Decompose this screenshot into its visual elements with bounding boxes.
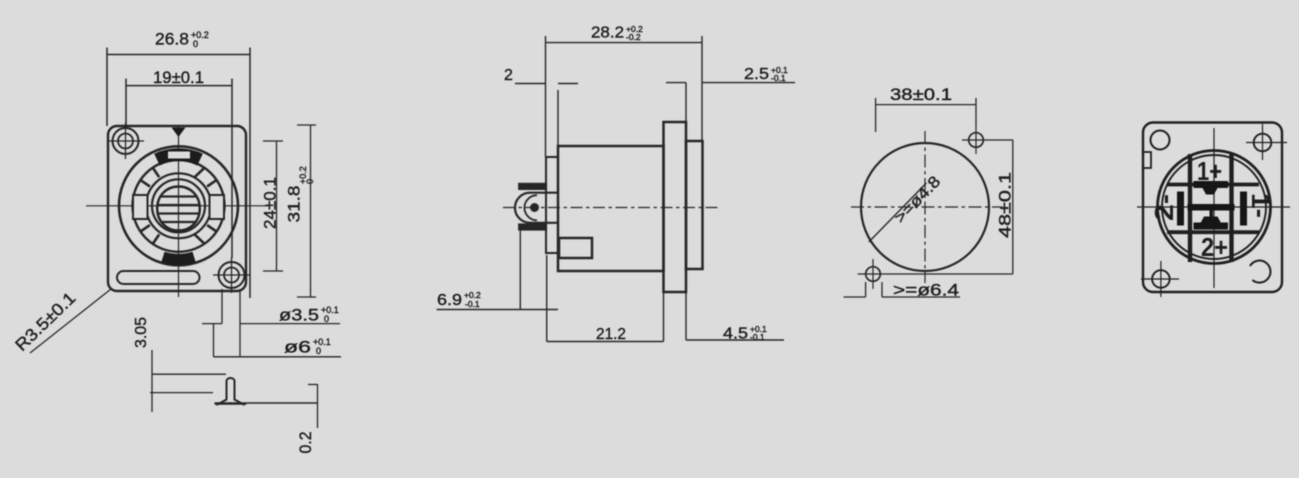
svg-text:0.2: 0.2 <box>296 432 315 454</box>
svg-text:2.5: 2.5 <box>744 66 769 83</box>
svg-text:2+: 2+ <box>1201 232 1228 262</box>
svg-text:2: 2 <box>504 67 513 84</box>
svg-text:0: 0 <box>324 314 329 324</box>
svg-text:3.05: 3.05 <box>133 317 150 348</box>
svg-text:-0.1: -0.1 <box>465 299 480 309</box>
svg-text:19±0.1: 19±0.1 <box>153 68 204 87</box>
svg-text:48±0.1: 48±0.1 <box>996 172 1015 238</box>
svg-text:38±0.1: 38±0.1 <box>890 85 952 104</box>
svg-text:>=ø6.4: >=ø6.4 <box>893 282 959 300</box>
svg-text:ø6: ø6 <box>284 338 311 357</box>
svg-text:21.2: 21.2 <box>596 326 626 343</box>
svg-text:2-: 2- <box>1149 194 1179 221</box>
svg-text:28.2: 28.2 <box>591 25 624 42</box>
svg-text:1-: 1- <box>1246 193 1276 218</box>
svg-text:24±0.1: 24±0.1 <box>261 177 280 229</box>
svg-text:0: 0 <box>305 179 315 184</box>
svg-text:6.9: 6.9 <box>437 292 462 309</box>
svg-text:-0.1: -0.1 <box>771 73 786 83</box>
svg-text:1+: 1+ <box>1197 156 1222 186</box>
svg-text:0: 0 <box>193 39 198 49</box>
svg-text:-0.1: -0.1 <box>750 332 765 342</box>
svg-text:4.5: 4.5 <box>723 326 748 343</box>
svg-text:0: 0 <box>316 346 321 356</box>
svg-text:-0.2: -0.2 <box>626 32 641 42</box>
svg-text:26.8: 26.8 <box>155 30 189 49</box>
svg-text:31.8: 31.8 <box>285 186 304 223</box>
svg-text:ø3.5: ø3.5 <box>279 306 319 325</box>
